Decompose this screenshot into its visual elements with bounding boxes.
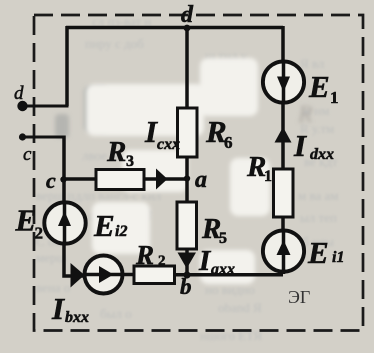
wire: R3 to node a <box>144 177 187 181</box>
gray scan smudges <box>55 86 313 138</box>
wire: terminal d lead <box>22 105 69 108</box>
faint bleed-through text <box>36 14 338 343</box>
current arrow Idxx (up) <box>275 127 292 143</box>
svg-text:E: E <box>307 235 329 270</box>
svg-text:i2: i2 <box>115 223 127 240</box>
wire: Ei2 to R2 <box>122 273 134 277</box>
svg-text:R: R <box>297 102 313 128</box>
wire: top bus down to E1 <box>281 26 285 62</box>
wire: node d down to R6 <box>185 28 189 109</box>
wire: top-left corner down to terminal d <box>65 26 69 106</box>
wire: node a to R5 <box>185 179 189 204</box>
wire: E1 down to R1 <box>281 101 285 170</box>
EMF source Ei1 <box>263 230 304 271</box>
svg-text:d: d <box>14 83 24 104</box>
svg-text:2: 2 <box>35 224 44 243</box>
svg-text:3: 3 <box>126 153 134 170</box>
svg-text:R: R <box>135 240 154 270</box>
resistor R2 <box>134 266 175 284</box>
wire: R2 to node b to Ei1 branch <box>175 273 284 277</box>
svg-text:оband Я: оband Я <box>218 300 262 315</box>
svg-text:c: c <box>23 144 32 165</box>
svg-text:пнру с доб: пнру с доб <box>85 36 144 51</box>
svg-text:6: 6 <box>224 133 233 152</box>
svg-text:E: E <box>308 69 330 104</box>
resistor R1 <box>274 169 294 217</box>
svg-text:1: 1 <box>264 168 272 185</box>
current arrow Icxx (into node a) <box>156 169 168 190</box>
white patches (scan lightening) <box>86 58 270 284</box>
svg-text:E: E <box>93 208 115 243</box>
svg-text:bxx: bxx <box>65 309 89 326</box>
svg-text:2: 2 <box>158 253 166 269</box>
wire: E2 down to bottom bus <box>64 242 85 276</box>
EMF source Ei2 <box>85 256 123 294</box>
svg-text:5: 5 <box>219 230 227 247</box>
svg-text:I: I <box>198 245 212 277</box>
current arrow Ibxx <box>71 263 85 288</box>
EMF source E2 <box>44 202 85 243</box>
terminal d <box>17 101 27 111</box>
svg-text:b: b <box>180 274 192 299</box>
svg-text:был о: был о <box>100 306 132 321</box>
wire: top bus d <box>66 26 283 30</box>
svg-text:R: R <box>106 136 126 168</box>
resistor R5 <box>177 202 197 249</box>
node a <box>184 175 190 181</box>
svg-text:мерш: мерш <box>36 250 67 265</box>
svg-text:E: E <box>15 203 37 238</box>
resistor R3 <box>96 170 144 190</box>
svg-text:I: I <box>51 291 65 326</box>
wire: R5 to node b <box>185 249 189 275</box>
svg-text:I: I <box>293 128 307 163</box>
svg-text:I: I <box>144 114 158 149</box>
svg-text:a: a <box>195 167 207 193</box>
wire: R6 to node a <box>185 157 189 178</box>
svg-text:d: d <box>181 2 194 28</box>
terminal c <box>19 133 26 140</box>
svg-text:c: c <box>46 168 56 193</box>
wire: R1 to Ei1 <box>281 217 285 232</box>
wire: terminal c lead down to node c <box>62 136 66 181</box>
current arrow Iaxx (down into b) <box>178 253 197 269</box>
wire: node c down to E2 <box>62 179 66 203</box>
wire: node c to R3 <box>63 177 96 181</box>
node d <box>184 25 191 32</box>
svg-text:но видно: но видно <box>205 282 255 297</box>
svg-text:cxx: cxx <box>157 136 180 153</box>
node c <box>60 176 66 182</box>
svg-text:ЭГ: ЭГ <box>288 287 310 307</box>
svg-text:i1: i1 <box>332 249 344 266</box>
EMF source E1 <box>263 61 304 102</box>
svg-text:м ва ам: м ва ам <box>298 188 338 203</box>
svg-text:1: 1 <box>330 88 339 107</box>
equivalent generator dashed boundary <box>34 15 363 331</box>
node b <box>183 271 190 278</box>
svg-text:dxx: dxx <box>310 146 334 163</box>
svg-text:ыл теп: ыл теп <box>300 210 337 225</box>
resistor R6 <box>178 108 198 157</box>
wire: terminal c lead <box>22 136 65 139</box>
